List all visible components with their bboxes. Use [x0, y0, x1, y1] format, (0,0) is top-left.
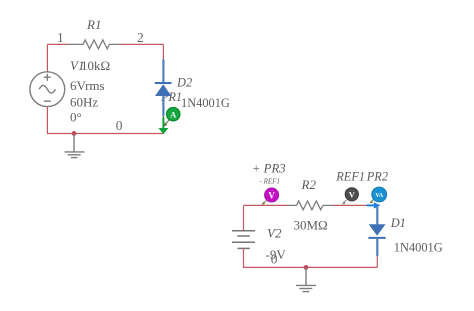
svg-text:60Hz: 60Hz — [70, 95, 98, 110]
svg-text:R2: R2 — [301, 177, 317, 192]
probe PR1 pointer — [165, 120, 170, 125]
svg-text:+ PR3: + PR3 — [252, 162, 286, 176]
probe PR2 circle — [372, 187, 387, 202]
svg-text:2: 2 — [137, 30, 144, 45]
probe PR1 circle A — [167, 108, 180, 121]
probe PR3 pointer — [263, 201, 267, 204]
svg-text:10kΩ: 10kΩ — [81, 58, 110, 73]
svg-text:0: 0 — [116, 118, 123, 133]
wire blue below diode — [376, 238, 378, 256]
wire red to bottom corner — [376, 256, 378, 267]
probe REF1 pointer — [344, 200, 347, 203]
current arrow green — [162, 117, 164, 129]
resistor R1 — [68, 40, 120, 49]
battery V2 — [232, 231, 255, 249]
diode D1 — [368, 224, 385, 238]
wire blue segment above diode — [162, 60, 164, 84]
svg-text:REF1: REF1 — [335, 170, 365, 184]
current arrow blue (into diode branch) — [367, 204, 374, 206]
svg-text:R1: R1 — [86, 17, 101, 32]
wire red segment to bottom — [162, 116, 164, 133]
svg-text:V2: V2 — [267, 226, 282, 241]
svg-text:V: V — [349, 190, 356, 200]
svg-text:30MΩ: 30MΩ — [294, 218, 328, 233]
svg-text:1: 1 — [57, 30, 64, 45]
svg-text:1N4001G: 1N4001G — [394, 241, 443, 255]
wire right vertical red top (node 2 down) — [162, 44, 164, 61]
svg-text:6Vrms: 6Vrms — [70, 78, 105, 93]
probe PR2 pointer — [371, 200, 374, 203]
AC source V1 — [30, 72, 65, 107]
svg-text:0: 0 — [271, 252, 278, 267]
wire top-right horizontal (R1 to node 2 corner) — [120, 43, 163, 45]
wire top-left horizontal (node 1 to R1) — [47, 43, 68, 45]
probe PR3 circle — [265, 188, 279, 202]
svg-text:V1: V1 — [70, 58, 84, 73]
wire left vertical (V1 bottom to ground wire) — [47, 107, 163, 134]
resistor R2 — [287, 201, 333, 210]
svg-text:V: V — [268, 190, 275, 200]
svg-text:0°: 0° — [70, 110, 82, 125]
wire top horizontal right (R2 to corner) — [333, 204, 371, 206]
wire left vertical (corner to battery) — [243, 205, 245, 230]
wire left vertical (node1 to V1 top) — [46, 44, 48, 71]
wire right vertical blue (corner to diode) — [376, 205, 378, 224]
diode D2 — [155, 83, 172, 96]
svg-text:- REF1: - REF1 — [260, 178, 280, 186]
probe REF1 circle — [345, 188, 358, 201]
svg-text:D2: D2 — [176, 76, 192, 90]
svg-text:A: A — [170, 109, 177, 119]
junction dot — [72, 131, 77, 136]
svg-text:1N4001G: 1N4001G — [181, 96, 230, 110]
ground — [65, 134, 85, 158]
junction dot — [304, 265, 309, 270]
svg-text:D1: D1 — [390, 216, 406, 230]
ground 2 — [296, 267, 316, 291]
wire blue segment below diode — [162, 96, 164, 116]
svg-text:PR2: PR2 — [366, 170, 388, 184]
svg-text:VA: VA — [375, 193, 384, 199]
wire left vertical (battery to bottom) — [244, 248, 378, 267]
wire top horizontal left (corner to R2) — [244, 204, 288, 206]
